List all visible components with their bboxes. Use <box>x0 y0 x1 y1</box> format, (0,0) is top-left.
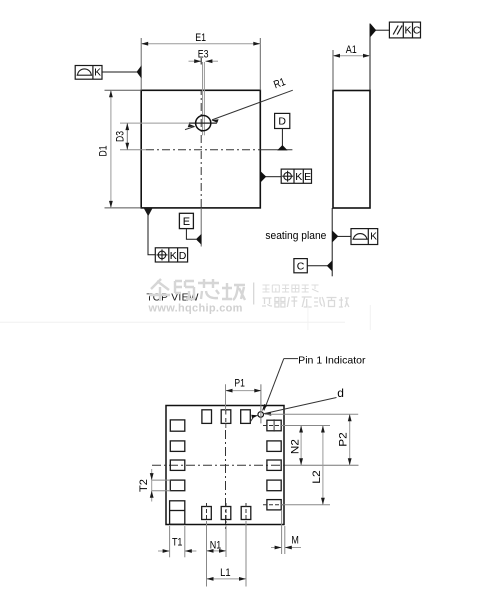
small watermark row 1 <box>263 285 319 292</box>
right pad 3 <box>267 460 281 470</box>
datum target C (boxed) <box>294 259 333 273</box>
dimension N1 <box>207 539 227 552</box>
package vertical centerline <box>200 90 202 208</box>
svg-text:seating plane: seating plane <box>265 230 326 242</box>
package body outline (top view) <box>141 90 260 208</box>
dimension L2 <box>311 426 325 505</box>
wire: A1 left extension <box>332 50 334 91</box>
feature frame [pos|K|D] below body <box>155 248 187 262</box>
dimension L1 <box>207 567 247 581</box>
char 2 <box>175 281 194 299</box>
dimension T1 <box>158 526 196 557</box>
svg-text:D1: D1 <box>98 146 110 157</box>
wire: centerline extension below body <box>200 208 202 247</box>
svg-text:E1: E1 <box>195 32 206 44</box>
char 3 <box>198 279 219 299</box>
svg-text:E: E <box>183 216 190 228</box>
dimension E3 <box>189 48 219 64</box>
centermark dash in right pad 5 <box>263 504 285 506</box>
svg-text:M: M <box>291 535 299 547</box>
svg-text:T2: T2 <box>138 479 150 492</box>
svg-text:K: K <box>170 250 177 262</box>
dimension D3 <box>114 123 129 150</box>
wire: bottom pad2 extension down <box>225 525 227 557</box>
wire: extension from right pad5 to right <box>281 504 330 506</box>
right pad 5 <box>267 500 281 510</box>
right pad 2 <box>267 441 281 452</box>
centermark vertical in right pad 1 <box>273 419 275 431</box>
svg-text:T1: T1 <box>172 536 183 548</box>
dimension P1 <box>226 377 262 423</box>
watermark (vector pseudo-glyphs for CJK) <box>149 279 245 301</box>
svg-text:D: D <box>278 116 286 128</box>
svg-text:L1: L1 <box>220 567 231 579</box>
dimension R1 leader <box>185 76 293 130</box>
datum triangle at bottom-left corner of body <box>144 208 153 216</box>
top pad 3 <box>241 410 251 424</box>
wire: seating plane extension line below side view <box>331 208 333 276</box>
svg-text:P2: P2 <box>338 432 350 447</box>
datum target D (boxed, right of body) <box>275 113 290 150</box>
right pad 4 <box>267 480 281 491</box>
feature frame [pos|K|E] right of body <box>261 169 312 183</box>
wire: connector from corner triangle to [pos|K|D] frame <box>148 215 155 255</box>
dimension E1 <box>141 32 260 46</box>
small watermark row 2 <box>262 297 349 307</box>
wire: top edge extension to left for D1 <box>105 89 142 91</box>
bottom pad 3 <box>241 507 251 520</box>
left pad 1 <box>170 420 185 431</box>
svg-text:N1: N1 <box>210 539 222 551</box>
wire: extension from pin1 circle to right <box>265 413 358 415</box>
svg-text:A1: A1 <box>346 44 357 56</box>
wire: A1 right extension up to parallelism datum <box>369 24 371 91</box>
side view body <box>333 91 370 209</box>
svg-text:R1: R1 <box>272 76 287 91</box>
wire: bottom pad3 extension down <box>245 521 247 587</box>
svg-text:www.hqchip.com: www.hqchip.com <box>148 303 243 315</box>
wire: E1 left extension line above body <box>140 38 142 90</box>
datum frame [dome|K] seating plane <box>351 229 378 245</box>
svg-text:N2: N2 <box>290 439 302 454</box>
right pad 1 <box>267 420 281 431</box>
wire: E1 right extension line above body <box>259 38 261 90</box>
dimension T2 <box>138 469 171 502</box>
wire: extension from right pad1 to right <box>281 425 330 427</box>
dimension M <box>271 510 301 554</box>
svg-text:E3: E3 <box>198 48 209 60</box>
dimension N2 <box>290 426 304 466</box>
top pad 2 <box>221 410 231 424</box>
wire: bottom edge extension to left for D1 <box>105 207 142 209</box>
feature frame [par|K|C] top-right <box>370 22 421 38</box>
dimension d leader <box>250 386 344 422</box>
svg-text:D: D <box>179 250 187 262</box>
wire: to [dome|K] frame <box>338 235 352 237</box>
bottom pad 2 <box>221 507 231 520</box>
centermark dash in top pad 2 <box>225 411 227 424</box>
horizontal centerline (bottom view) <box>152 464 285 466</box>
svg-text:Pin 1 Indicator: Pin 1 Indicator <box>298 354 366 366</box>
char 4 <box>222 283 245 300</box>
left pad 5 (corner, extends to body edge) <box>170 501 185 525</box>
svg-text:P1: P1 <box>234 377 245 389</box>
package body outline (bottom view) <box>166 406 284 525</box>
svg-text:L2: L2 <box>311 470 323 484</box>
top pad 1 <box>202 410 212 424</box>
svg-text:C: C <box>297 261 305 273</box>
svg-text:K: K <box>295 171 302 183</box>
left pad 3 <box>170 460 185 470</box>
datum triangle on seating plane <box>332 231 338 243</box>
centermark dashes in bottom pads <box>206 503 208 523</box>
Pin 1 Indicator label and leader <box>262 354 366 411</box>
datum target E (boxed, below body) <box>179 213 201 244</box>
char 1 <box>149 279 170 301</box>
hole circle <box>196 116 211 131</box>
svg-text:K: K <box>370 232 377 243</box>
vertical centerline (bottom view) <box>225 430 227 531</box>
centermark dash in right pad 1 <box>263 425 285 427</box>
svg-text:K: K <box>94 68 101 79</box>
dimension P2 <box>338 414 352 465</box>
dimension D1 <box>98 90 113 208</box>
left pad 2 <box>170 441 185 452</box>
pin 1 indicator circle <box>258 412 264 418</box>
wire: hole horizontal line (gray) <box>120 122 190 124</box>
package horizontal centerline <box>120 149 146 151</box>
bottom pad 1 <box>202 507 212 520</box>
wire: hole vertical offset line (gray) <box>202 62 204 135</box>
svg-text:E: E <box>304 171 311 183</box>
datum frame [dome|K] top-left <box>75 65 141 79</box>
svg-text:d: d <box>337 386 344 400</box>
svg-text:D3: D3 <box>114 131 126 142</box>
left pad 4 <box>170 480 185 491</box>
dimension A1 <box>333 44 370 58</box>
svg-text:C: C <box>413 25 421 37</box>
svg-text:K: K <box>404 25 411 37</box>
wire: bottom pad1 extension down <box>206 521 208 587</box>
